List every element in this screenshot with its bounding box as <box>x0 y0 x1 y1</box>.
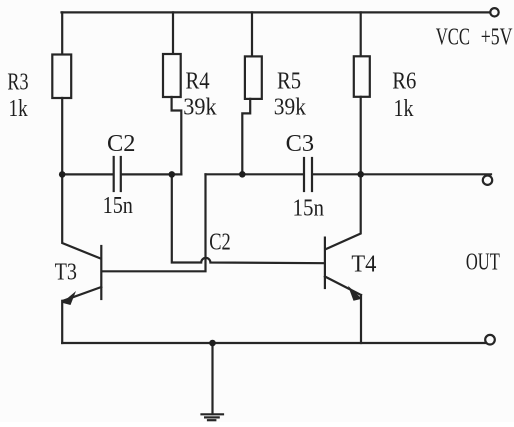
capacitor C3 <box>304 158 312 191</box>
wire node C segment (to C3 left) <box>206 173 304 175</box>
svg-text:T3: T3 <box>55 260 77 286</box>
transistor T3 <box>62 174 101 343</box>
label VCC +5V <box>436 25 513 51</box>
svg-text:15n: 15n <box>293 196 325 222</box>
wire node C vertical down to T3 base <box>102 174 206 271</box>
wire ground stem <box>211 343 213 414</box>
wire R5 top lead <box>251 12 253 56</box>
resistor R5 <box>245 56 262 99</box>
svg-text:39k: 39k <box>183 94 216 120</box>
transistor T3 emitter arrow <box>62 291 76 305</box>
wire node D segment (C3 right to OUT top terminal) <box>313 173 491 175</box>
svg-text:R4: R4 <box>186 69 210 95</box>
svg-text:OUT: OUT <box>466 250 500 276</box>
capacitor C2 <box>114 157 121 191</box>
ground <box>202 414 224 420</box>
svg-text:C3: C3 <box>286 131 315 157</box>
resistor R4 <box>163 54 181 97</box>
wire R3 bottom lead <box>61 98 63 174</box>
node A junction dot <box>59 171 66 178</box>
svg-text:C2: C2 <box>107 131 136 157</box>
wire node B segment (C2 right to R4) <box>122 173 182 175</box>
transistor T4 <box>325 174 361 343</box>
wire top supply rail <box>62 11 491 13</box>
svg-text:VCC: VCC <box>436 25 470 51</box>
svg-text:+5V: +5V <box>481 25 513 51</box>
svg-text:15n: 15n <box>103 193 133 219</box>
wire R6 bottom lead <box>360 97 362 175</box>
wire R5 bottom lead jog <box>242 99 250 174</box>
resistor R6 <box>354 56 370 97</box>
ground junction dot <box>209 340 216 347</box>
wire R6 top lead <box>360 12 362 56</box>
wire R3 top lead <box>61 12 63 54</box>
svg-text:T4: T4 <box>351 252 376 278</box>
svg-text:1k: 1k <box>9 96 28 122</box>
terminal VCC <box>490 8 498 16</box>
svg-text:1k: 1k <box>394 96 414 122</box>
node C junction dot <box>239 171 246 178</box>
svg-text:R6: R6 <box>392 69 416 95</box>
wire cross-coupling from node B down to T4 base with hop <box>172 174 325 263</box>
wire node A left segment <box>62 173 114 175</box>
terminal OUT <box>485 335 495 345</box>
svg-text:39k: 39k <box>274 94 306 120</box>
svg-text:R5: R5 <box>277 69 301 95</box>
svg-text:C2: C2 <box>209 230 231 256</box>
svg-text:R3: R3 <box>7 70 28 96</box>
wire R4 top lead <box>172 12 174 54</box>
transistor T4 emitter arrow <box>348 286 362 301</box>
terminal upper right <box>483 176 492 185</box>
wire bottom emitter rail <box>62 342 486 344</box>
resistor R3 <box>52 55 71 99</box>
node D junction dot <box>357 171 364 178</box>
wire R4 bottom lead jog <box>172 97 182 174</box>
node B junction dot <box>169 171 176 178</box>
